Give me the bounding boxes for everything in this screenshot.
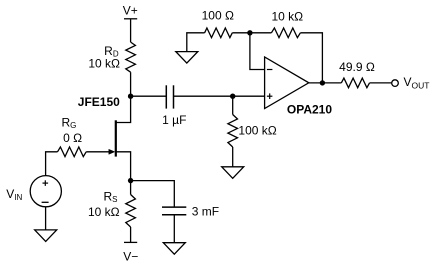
capacitor C2 3 mF [162,204,219,218]
wire [131,181,175,208]
ground [163,243,185,255]
source VIN [6,176,61,207]
node source junction [128,178,133,183]
node feedback junction [247,30,252,35]
resistor R3 100 Ohm [202,8,234,37]
svg-text:0 Ω: 0 Ω [63,131,82,145]
node output junction [320,80,325,85]
supply terminal V- [123,242,138,263]
node noninverting input junction [230,94,235,99]
node drain junction [128,94,133,99]
svg-text:10 kΩ: 10 kΩ [88,205,120,219]
wire [187,33,205,52]
svg-text:V+: V+ [123,3,138,17]
wire [232,32,250,34]
terminal VOUT [392,75,430,91]
svg-text:10 kΩ: 10 kΩ [88,57,120,71]
wire [250,32,272,34]
wire [46,152,58,176]
wire [130,227,132,242]
wire [370,82,392,84]
wire [300,33,322,83]
svg-text:V−: V− [123,249,138,263]
svg-text:10 kΩ: 10 kΩ [271,9,303,23]
svg-text:RS: RS [104,189,118,204]
ground [35,230,57,242]
op-amp U1 OPA210 [265,57,333,116]
wire [174,95,265,97]
svg-text:RG: RG [62,115,77,129]
ground [176,52,198,64]
svg-text:100 kΩ: 100 kΩ [238,124,276,138]
wire [131,95,167,97]
resistor R4 10 kOhm feedback [271,9,303,37]
svg-text:OPA210: OPA210 [287,102,332,116]
svg-text:100 Ω: 100 Ω [202,8,234,22]
resistor RG 0 Ohm [58,115,87,156]
wire [130,19,132,42]
resistor R2 100 kOhm [228,96,277,147]
resistor RD 10 kOhm [88,42,135,72]
transistor Q1 JFE150 [78,95,131,181]
capacitor C1 1 uF [162,85,186,127]
ground [222,167,244,179]
svg-text:VIN: VIN [6,187,22,202]
svg-text:49.9 Ω: 49.9 Ω [339,60,375,74]
resistor R5 49.9 Ohm [339,60,375,88]
svg-text:3 mF: 3 mF [192,204,219,218]
svg-text:1 µF: 1 µF [162,113,186,127]
resistor RS 10 kOhm [88,181,135,227]
svg-text:VOUT: VOUT [404,75,430,91]
wire [309,82,342,84]
wire [250,33,265,70]
wire [173,215,175,243]
wire [232,147,234,167]
supply terminal V+ [123,3,138,18]
wire [45,207,47,230]
wire [130,72,132,96]
svg-text:JFE150: JFE150 [78,95,120,109]
